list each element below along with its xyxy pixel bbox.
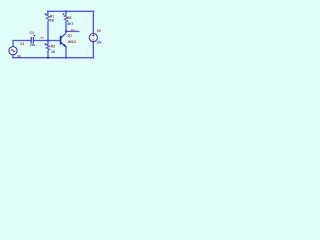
svg-text:V1: V1 xyxy=(20,42,24,46)
svg-text:8v: 8v xyxy=(17,55,21,59)
svg-text:RC: RC xyxy=(71,28,76,32)
svg-text:15v: 15v xyxy=(97,40,102,44)
svg-text:Q1: Q1 xyxy=(68,33,73,37)
svg-text:R3: R3 xyxy=(67,16,71,20)
svg-text:1K: 1K xyxy=(51,50,56,54)
svg-text:V2: V2 xyxy=(97,29,101,33)
svg-text:10u: 10u xyxy=(30,43,35,47)
svg-text:vb: vb xyxy=(40,36,44,40)
svg-text:6K7: 6K7 xyxy=(68,22,74,26)
svg-text:2N2222: 2N2222 xyxy=(68,40,76,44)
svg-text:1K: 1K xyxy=(50,19,55,23)
svg-text:R2: R2 xyxy=(51,44,55,48)
svg-text:C1: C1 xyxy=(30,31,34,35)
